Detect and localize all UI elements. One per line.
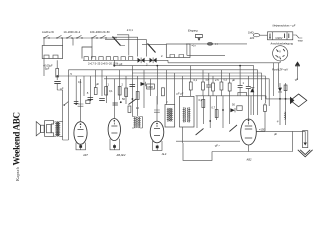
capacitor C13 (above V1) xyxy=(74,102,79,104)
tube V3 AL4 xyxy=(150,121,164,143)
grid cap wire V1 xyxy=(78,79,84,122)
diode D3 xyxy=(230,108,235,112)
wire hump bus right extension xyxy=(160,60,280,63)
mains box element 1 xyxy=(269,34,271,39)
capacitor C11 xyxy=(237,106,242,111)
heater wire V4 xyxy=(248,96,250,152)
svg-text:AB,AF2: AB,AF2 xyxy=(116,153,126,157)
switch S2 xyxy=(56,35,62,38)
resistor R4 xyxy=(125,88,128,97)
svg-text:·2·0,1: ·2·0,1 xyxy=(126,28,133,32)
resistor R9 xyxy=(202,82,205,90)
wire v x257 lower xyxy=(257,98,259,115)
mains box divider xyxy=(273,32,288,40)
trimmer C1 (diode pair mark) xyxy=(138,58,145,64)
svg-text:·µF ⌐: ·µF ⌐ xyxy=(214,144,221,148)
node E xyxy=(209,120,211,122)
resistor R6 xyxy=(162,88,165,96)
TA arrow xyxy=(198,38,201,40)
speaker LS xyxy=(36,121,53,137)
svg-text:≈220V: ≈220V xyxy=(275,36,283,40)
resistor R10 xyxy=(212,83,215,91)
IF can T2 xyxy=(180,96,195,127)
svg-text:Punkt ZF·≈µV: Punkt ZF·≈µV xyxy=(272,68,288,72)
choke L14 xyxy=(285,112,286,120)
wire diamond drop xyxy=(266,96,291,99)
resistor R16 xyxy=(264,105,267,112)
wire L11 leads xyxy=(132,117,142,129)
grid cap wire V2 xyxy=(113,79,115,118)
switch S11 xyxy=(229,125,237,132)
resistor R11 xyxy=(220,82,223,90)
IF coil T2a xyxy=(183,108,184,123)
coil box L15 (osc) xyxy=(166,44,190,58)
wire v x126 xyxy=(125,76,127,104)
resistor R1 (left) xyxy=(56,69,59,78)
node B xyxy=(120,101,122,103)
TA input bracket xyxy=(195,35,202,41)
pickup connector P1 xyxy=(303,131,308,148)
IF can T1 xyxy=(165,105,175,128)
wire v x174 IF xyxy=(173,73,175,105)
wire top feed xyxy=(113,60,115,65)
coil L8 hump xyxy=(114,57,118,61)
switch S12 (muting) xyxy=(63,101,68,105)
wire C3 down xyxy=(57,83,62,95)
wire v x132 xyxy=(131,66,133,116)
svg-text:µF: µF xyxy=(96,82,99,86)
wire TA drop xyxy=(187,44,225,56)
bus B2 xyxy=(68,70,257,98)
svg-text:10–2000·20–2: 10–2000·20–2 xyxy=(64,30,81,34)
svg-text:AL4: AL4 xyxy=(161,152,167,156)
node I xyxy=(239,65,241,67)
wire right column x280 xyxy=(279,83,281,125)
wire v x107 xyxy=(106,76,108,103)
wire TA line xyxy=(186,43,247,45)
cathode loop V3 xyxy=(153,141,163,150)
IF coil T2a2 xyxy=(185,108,186,123)
svg-text:Kapsch: Kapsch xyxy=(15,166,20,181)
wire v x183 IF xyxy=(182,76,184,96)
box DM2 xyxy=(147,84,155,89)
IF coil T1a2 xyxy=(169,108,170,121)
wire detector bus xyxy=(196,95,266,97)
resistor R15 xyxy=(284,85,287,91)
svg-text:a g: a g xyxy=(277,50,281,53)
IF coil T1a xyxy=(167,108,168,121)
bus B4 xyxy=(58,76,266,103)
wire right of box xyxy=(293,35,303,38)
svg-text:Eingang: Eingang xyxy=(188,29,198,33)
tube V4 AB2 rectifier xyxy=(241,119,257,145)
pickup arrow xyxy=(290,97,294,105)
svg-text:2·: 2· xyxy=(161,54,163,58)
resistor R17 xyxy=(94,88,97,95)
IF coil T1b2 xyxy=(170,108,171,121)
diode D4 xyxy=(278,88,282,92)
wire bottom jog xyxy=(183,143,212,160)
wire R1 xyxy=(56,60,58,80)
svg-text:·µF: ·µF xyxy=(294,78,298,82)
resistor R14 xyxy=(215,110,218,118)
wire v x96 xyxy=(95,70,97,88)
bus B3 xyxy=(132,73,262,100)
resistor R12 xyxy=(228,83,231,91)
pickup connector diamond xyxy=(290,94,306,107)
capacitor C6 xyxy=(99,99,105,101)
output transformer Tr2 core xyxy=(57,122,58,137)
coil L15b xyxy=(179,55,184,58)
wire v x203 xyxy=(202,70,204,96)
svg-text:0,1: 0,1 xyxy=(78,80,82,84)
cathode loop V2 xyxy=(110,139,120,150)
svg-text:0,2: 0,2 xyxy=(199,98,203,102)
wire bottom mid xyxy=(176,140,240,142)
resistor R7 xyxy=(128,106,131,113)
resistor R2 xyxy=(105,87,108,96)
switch S9 (mid diagonal) xyxy=(129,99,137,105)
wire switch row xyxy=(44,38,117,46)
output transformer Tr2 secondary coil xyxy=(59,122,60,137)
wire v x253 lower xyxy=(253,96,255,115)
cathode loop V1 xyxy=(76,143,86,150)
socket pin 1 xyxy=(276,50,278,52)
capacitor C9 xyxy=(238,86,243,88)
coupling coil pair L12 xyxy=(139,117,140,128)
node H xyxy=(156,65,158,67)
node C xyxy=(132,98,134,100)
wire v x209 xyxy=(208,73,210,96)
coil L6 hump xyxy=(99,57,103,61)
svg-text:AB2: AB2 xyxy=(246,158,252,162)
fuse left of box xyxy=(253,34,267,37)
IF coil T2b xyxy=(189,108,190,123)
IF coil T1b xyxy=(171,108,172,121)
resistor R8 xyxy=(189,82,192,90)
wire v x230 xyxy=(229,73,231,96)
svg-text:Weekend ABC: Weekend ABC xyxy=(12,112,22,166)
cathode resistor V2 xyxy=(113,145,116,148)
wire v x273 xyxy=(273,63,275,96)
coil L5 hump xyxy=(91,57,95,61)
wire v x213 xyxy=(212,76,214,96)
bus B1 xyxy=(114,66,253,96)
wire rectifier output xyxy=(256,131,305,151)
switch arm S8 (long diagonal) xyxy=(148,44,156,53)
wire band-switch return 3 xyxy=(105,40,147,57)
wire v x190 xyxy=(190,66,192,96)
mains box (Netzanschluss) xyxy=(268,32,293,40)
cathode resistor V1 xyxy=(79,145,82,148)
IF coil T2b2 xyxy=(187,108,188,123)
socket circle (Anschlussbelegung) xyxy=(273,46,288,61)
coupling coil L11b xyxy=(136,117,137,128)
wire bottom bus to rectifier xyxy=(212,151,293,153)
coil hump L13 on detector bus xyxy=(238,92,247,95)
switch S5 xyxy=(91,35,97,38)
wire antenna drop xyxy=(44,38,63,76)
wire v x210 lower xyxy=(209,96,211,128)
wire v x150 xyxy=(150,79,152,96)
wire v x102 xyxy=(101,70,103,96)
switch S1 xyxy=(43,35,49,38)
svg-text:Netzanschluss – µF: Netzanschluss – µF xyxy=(273,23,296,27)
capacitor C10 xyxy=(246,87,251,89)
svg-text:·max: ·max xyxy=(297,40,303,43)
ground chevron (pickup) xyxy=(298,150,313,157)
wire B+ feed to output stage xyxy=(67,70,69,122)
resistor R5 xyxy=(136,92,139,100)
switch arm S7 (long diagonal) xyxy=(113,37,121,46)
capacitor C4 xyxy=(130,85,136,87)
wire v x229 lower xyxy=(229,96,231,124)
wire v x144 xyxy=(143,70,145,108)
wire oscillator link xyxy=(92,38,166,47)
capacitor C5 xyxy=(88,98,94,100)
wire v x120 xyxy=(119,70,121,100)
svg-text:·µF: ·µF xyxy=(60,87,64,91)
wire v x248 xyxy=(247,76,249,96)
svg-text:0,1: 0,1 xyxy=(194,78,198,82)
wire v x240 xyxy=(239,66,241,96)
wire v x221 xyxy=(220,70,222,96)
resistor R3 xyxy=(118,87,121,96)
coil L9 hump xyxy=(121,57,125,61)
svg-text:·220: ·220 xyxy=(249,36,255,40)
svg-text:100–2000·20–50: 100–2000·20–50 xyxy=(90,30,110,34)
wire v x217 lower xyxy=(216,96,218,120)
capacitor C7 xyxy=(113,103,118,105)
coupling coil pair L11 xyxy=(134,117,135,128)
coil L1 hump xyxy=(44,55,49,58)
svg-text:0,7: 0,7 xyxy=(212,106,216,110)
wire band-switch return 1 xyxy=(117,35,129,56)
coil L4 hump xyxy=(84,57,88,61)
wire v x278 xyxy=(278,63,280,87)
coil L15a xyxy=(170,55,175,58)
coupling coil L12b xyxy=(138,117,139,128)
svg-text:Anschlussbelegung: Anschlussbelegung xyxy=(270,42,294,46)
bus B5 xyxy=(104,79,269,106)
diode D2 xyxy=(250,88,254,93)
switch S3 xyxy=(66,35,72,38)
svg-text:2·5: 2·5 xyxy=(215,78,219,82)
svg-text:k f: k f xyxy=(278,55,281,59)
node G xyxy=(90,99,92,101)
socket pin 3 xyxy=(276,56,278,57)
capacitor C3 (left, to ground) xyxy=(54,81,60,83)
wire T2 bottom drop xyxy=(182,127,184,143)
socket pin 2 xyxy=(283,49,285,51)
node K xyxy=(285,98,287,100)
svg-text:·5µF: ·5µF xyxy=(44,66,50,70)
wire v x197 lower xyxy=(196,96,198,128)
mains box element 2 xyxy=(285,34,289,39)
coil L7 hump xyxy=(106,57,110,61)
node J xyxy=(279,98,281,100)
svg-text:µF: µF xyxy=(274,132,277,136)
grid cap wire V3 xyxy=(154,96,160,121)
wire v x84 xyxy=(83,76,85,96)
trimmer C2 (diode pair mark) xyxy=(150,58,157,64)
wire speaker to transformer xyxy=(54,122,63,137)
cathode resistor V3 xyxy=(156,146,159,149)
wire v x90 xyxy=(89,76,91,100)
node F xyxy=(75,103,77,105)
switch S6 xyxy=(100,35,106,38)
wire v x251 lower xyxy=(250,96,252,115)
wire hump bus xyxy=(83,59,160,61)
svg-text:AF7: AF7 xyxy=(82,153,88,157)
svg-text:≈·µF: ≈·µF xyxy=(117,62,123,66)
wire v x157 IF xyxy=(156,66,158,105)
switch S10 xyxy=(196,129,204,136)
wire v x76 xyxy=(75,76,77,104)
svg-text:Aw/Kw·W: Aw/Kw·W xyxy=(42,30,54,34)
coil box L1/L2 (antenna coils) xyxy=(42,46,62,59)
capacitor C8 xyxy=(206,85,211,87)
scale lamp ellipse xyxy=(208,43,213,46)
grid condenser C14 xyxy=(86,100,90,103)
svg-text:µF: µF xyxy=(232,78,235,82)
wire transformer secondary vertical xyxy=(63,95,69,140)
electrolytic C12 xyxy=(295,61,300,80)
wire R16 leads xyxy=(256,103,265,131)
switch S4 xyxy=(76,35,82,38)
junction node on B1 xyxy=(113,65,115,67)
node D xyxy=(222,109,224,111)
coil L10 hump xyxy=(128,57,132,61)
output transformer Tr2 primary coil xyxy=(56,122,57,137)
svg-text:DM2: DM2 xyxy=(148,85,154,89)
wire right column x285.5 xyxy=(285,83,287,125)
wire v x166 IF xyxy=(165,70,167,105)
resistor R13 xyxy=(202,100,205,108)
coil box L3 xyxy=(82,47,92,59)
diode D1 xyxy=(141,82,146,86)
node A (left bus join) xyxy=(56,75,58,77)
svg-text:0,1: 0,1 xyxy=(109,89,113,93)
wire v x203 lower xyxy=(203,96,205,124)
socket pin 4 xyxy=(283,56,285,57)
svg-text:0,5: 0,5 xyxy=(224,78,228,82)
svg-text:1MΩ·: 1MΩ· xyxy=(248,31,255,35)
coil L2 hump xyxy=(53,55,58,58)
wire v x223 lower xyxy=(222,96,224,128)
wire v x138 xyxy=(137,76,139,116)
tube V2 AB/AF2 xyxy=(108,119,120,141)
socket pin 5 xyxy=(280,58,281,60)
wire band-switch return 2 xyxy=(112,37,138,56)
tube V1 AF7 xyxy=(74,122,87,145)
